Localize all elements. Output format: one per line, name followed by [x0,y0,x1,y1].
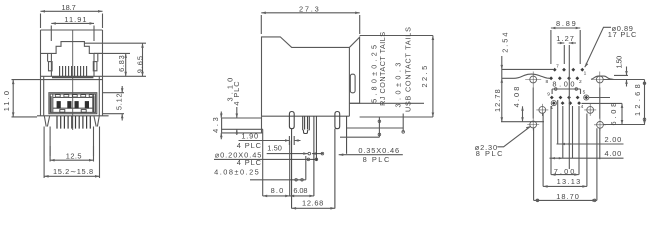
USB shell outer [49,93,97,114]
RJ45 contact comb [60,66,87,76]
USB tails dim line [402,114,405,134]
bottom-mid row holes [552,101,581,105]
USB bottom slots [60,110,86,113]
svg-text:4.08±0.25: 4.08±0.25 [214,168,259,177]
RJ45 shoulder lines [41,53,103,61]
svg-text:1.90: 1.90 [241,132,258,141]
ext line bottom left [501,121,544,123]
USB contacts [57,102,88,108]
RJ tail pin 1 [289,112,294,129]
body bottom line [262,103,360,116]
USB tail pin [303,116,310,133]
ext line usb pin outer down [315,116,317,161]
ext line bottom-right mount hole down [597,128,600,200]
upper RJ row holes [553,68,584,72]
ext line lower RJ row with jog [502,74,550,78]
inner walls lower section [44,76,100,116]
latch window [350,74,355,93]
ext lines 12.5 [50,127,93,157]
RJ tail pin 2 [335,112,340,129]
svg-text:8.89: 8.89 [556,19,576,28]
dim 15.2~15.8 [44,175,99,178]
svg-text:2.54: 2.54 [501,32,510,53]
svg-text:4 PLC: 4 PLC [237,158,262,167]
USB tongue lines [53,94,93,112]
lower RJ row holes [549,76,579,80]
ext line bottom-left mount hole down [533,128,535,200]
RJ45 side latch right [93,62,97,71]
svg-text:9: 9 [547,92,550,98]
svg-text:6.08: 6.08 [293,186,308,195]
svg-text:18.7: 18.7 [62,3,77,12]
svg-text:7.00: 7.00 [554,167,575,176]
dim 6.83 [124,53,127,76]
svg-text:8.0: 8.0 [271,186,284,195]
svg-text:15.2∼15.8: 15.2∼15.8 [53,167,94,176]
ext line body left edge down [262,129,264,196]
ext line pin1 center down [291,129,293,209]
label 0.20X0.45 leader [214,158,318,161]
circle around first bottom-mid hole [551,101,556,106]
leader ø2.30 [497,126,530,147]
svg-text:4.3: 4.3 [211,117,220,133]
svg-text:1.27: 1.27 [556,34,574,43]
mount hole bottom-left [527,119,539,131]
dim 12.5 [50,146,93,162]
svg-text:3.0±0.3: 3.0±0.3 [394,63,403,108]
svg-text:11.91: 11.91 [64,15,86,24]
label 4.08±0.25 leader [250,156,306,181]
RJ45 cavity [51,42,94,77]
svg-text:4: 4 [581,104,584,110]
svg-text:12.5: 12.5 [66,151,82,160]
ext line hole col 1 [550,106,552,175]
leader ø0.89 [585,27,611,67]
ext line hole col 3 [562,106,564,158]
dim 12.78 arrow bottom [501,117,504,122]
dim 11.0 left [12,80,41,117]
dim 7.00 [551,173,579,176]
dim 2.54 [501,56,504,122]
svg-text:18.70: 18.70 [556,192,579,201]
dim 8.00 [552,88,580,94]
mount hole top-left [525,72,541,88]
svg-text:5: 5 [583,90,586,96]
ext line mid-right mount hole down [586,114,588,187]
front face outer rect [41,30,103,116]
ext lines right side [84,43,146,114]
ext line right mount holes column [599,88,601,119]
svg-text:0.35X0.46: 0.35X0.46 [358,146,399,155]
svg-text:8: 8 [545,79,548,85]
dim 8.89 [551,27,580,64]
svg-text:7: 7 [556,64,559,70]
USB side bars [51,96,94,112]
svg-text:1.50: 1.50 [615,56,624,69]
left bent tab [44,116,49,127]
right refs [582,75,645,124]
RJ45 side latch left [49,62,53,71]
ext line hole col 2 [557,100,559,144]
center line [72,30,74,130]
comb bottom bar [52,76,93,78]
ext line shield tail down [346,116,348,154]
ext line mid-left mount hole down [542,114,544,187]
dim 1.50 right [625,67,628,87]
ext line left mount holes column [532,88,534,119]
svg-text:27.3: 27.3 [299,4,319,13]
svg-text:6.83: 6.83 [117,55,126,72]
svg-text:1: 1 [584,70,587,76]
circle around last top-mid hole [584,95,589,100]
ext line usb pin right down [313,116,315,196]
dim 18.70 [534,199,597,202]
svg-text:8 PLC: 8 PLC [476,149,503,158]
dim 9.65 [141,43,144,76]
USB shell inner [50,94,95,112]
dim 5.12 [121,86,124,121]
dim 11.91 [51,22,94,41]
USB top window row [55,95,93,97]
pin labels mid [547,90,585,111]
ref line 2.00 [557,143,624,145]
dim 8.0 / 6.08 [263,195,314,198]
RJ tails dim line [378,117,381,137]
ext line upper RJ row [502,68,553,70]
pin labels top [545,64,586,86]
mount hole top-right [592,72,608,88]
dim 18.7 [41,10,103,28]
svg-text:5.80±0.25: 5.80±0.25 [370,45,379,103]
svg-text:4.08: 4.08 [512,86,521,107]
USB block front (side view) [222,116,263,133]
svg-text:13.13: 13.13 [557,177,581,186]
dim 1.50 [267,152,324,155]
svg-text:2.00: 2.00 [605,135,622,144]
svg-text:RJ CONTACT TAILS: RJ CONTACT TAILS [378,32,387,106]
dim 1.27 [558,42,577,64]
svg-text:8.00: 8.00 [552,79,575,88]
label 0.35X0.46 leader [339,153,403,156]
shield pins below flange [57,116,90,129]
svg-text:22.5: 22.5 [420,66,429,88]
svg-text:12.68: 12.68 [302,199,324,208]
dim 1.90 [239,136,301,145]
svg-text:4 PLC: 4 PLC [232,81,241,106]
svg-text:8 PLC: 8 PLC [363,155,390,164]
mount hole bottom-right [594,119,606,131]
body outline [262,37,360,116]
svg-text:9.65: 9.65 [136,56,145,74]
dim 3.10 4PLC leader [236,107,239,135]
dim 4.3 [220,112,223,140]
ext line hole col 5 [578,106,580,175]
right bent tab [94,116,99,127]
svg-text:12.78: 12.78 [493,89,502,112]
dim 27.3 [261,12,359,35]
wave outline right hole [591,76,614,79]
mount hole mid-left [536,104,548,116]
ref line 4.00 [550,157,624,159]
svg-text:5.12: 5.12 [114,93,123,110]
ext line pin1 left edge down [289,141,291,197]
svg-text:USB CONTACT TAILS: USB CONTACT TAILS [404,27,413,112]
ext line pin2 center down [334,129,336,209]
dim 6.08 right [621,103,624,124]
footprint center line [568,45,570,169]
dim 4.08 [521,106,524,121]
mount hole mid-right [584,104,596,116]
dim 13.13 [543,185,587,188]
svg-text:11.0: 11.0 [2,91,11,112]
svg-text:4 PLC: 4 PLC [237,141,262,150]
svg-text:12.68: 12.68 [633,84,642,116]
svg-text:2: 2 [579,79,582,85]
ext line hole col 4 [572,106,574,158]
right refs [340,36,433,138]
svg-text:17 PLC: 17 PLC [608,30,637,39]
top-mid row holes [550,96,588,100]
svg-text:4.00: 4.00 [605,149,622,158]
dim 12.68 [292,207,335,210]
svg-text:6.08: 6.08 [609,103,618,126]
dim 12.68 right [643,80,646,125]
flange line [37,115,109,117]
dim 22.5 [432,36,435,118]
ext lines 15.2~15.8 [44,127,99,179]
svg-text:1.50: 1.50 [267,144,282,153]
